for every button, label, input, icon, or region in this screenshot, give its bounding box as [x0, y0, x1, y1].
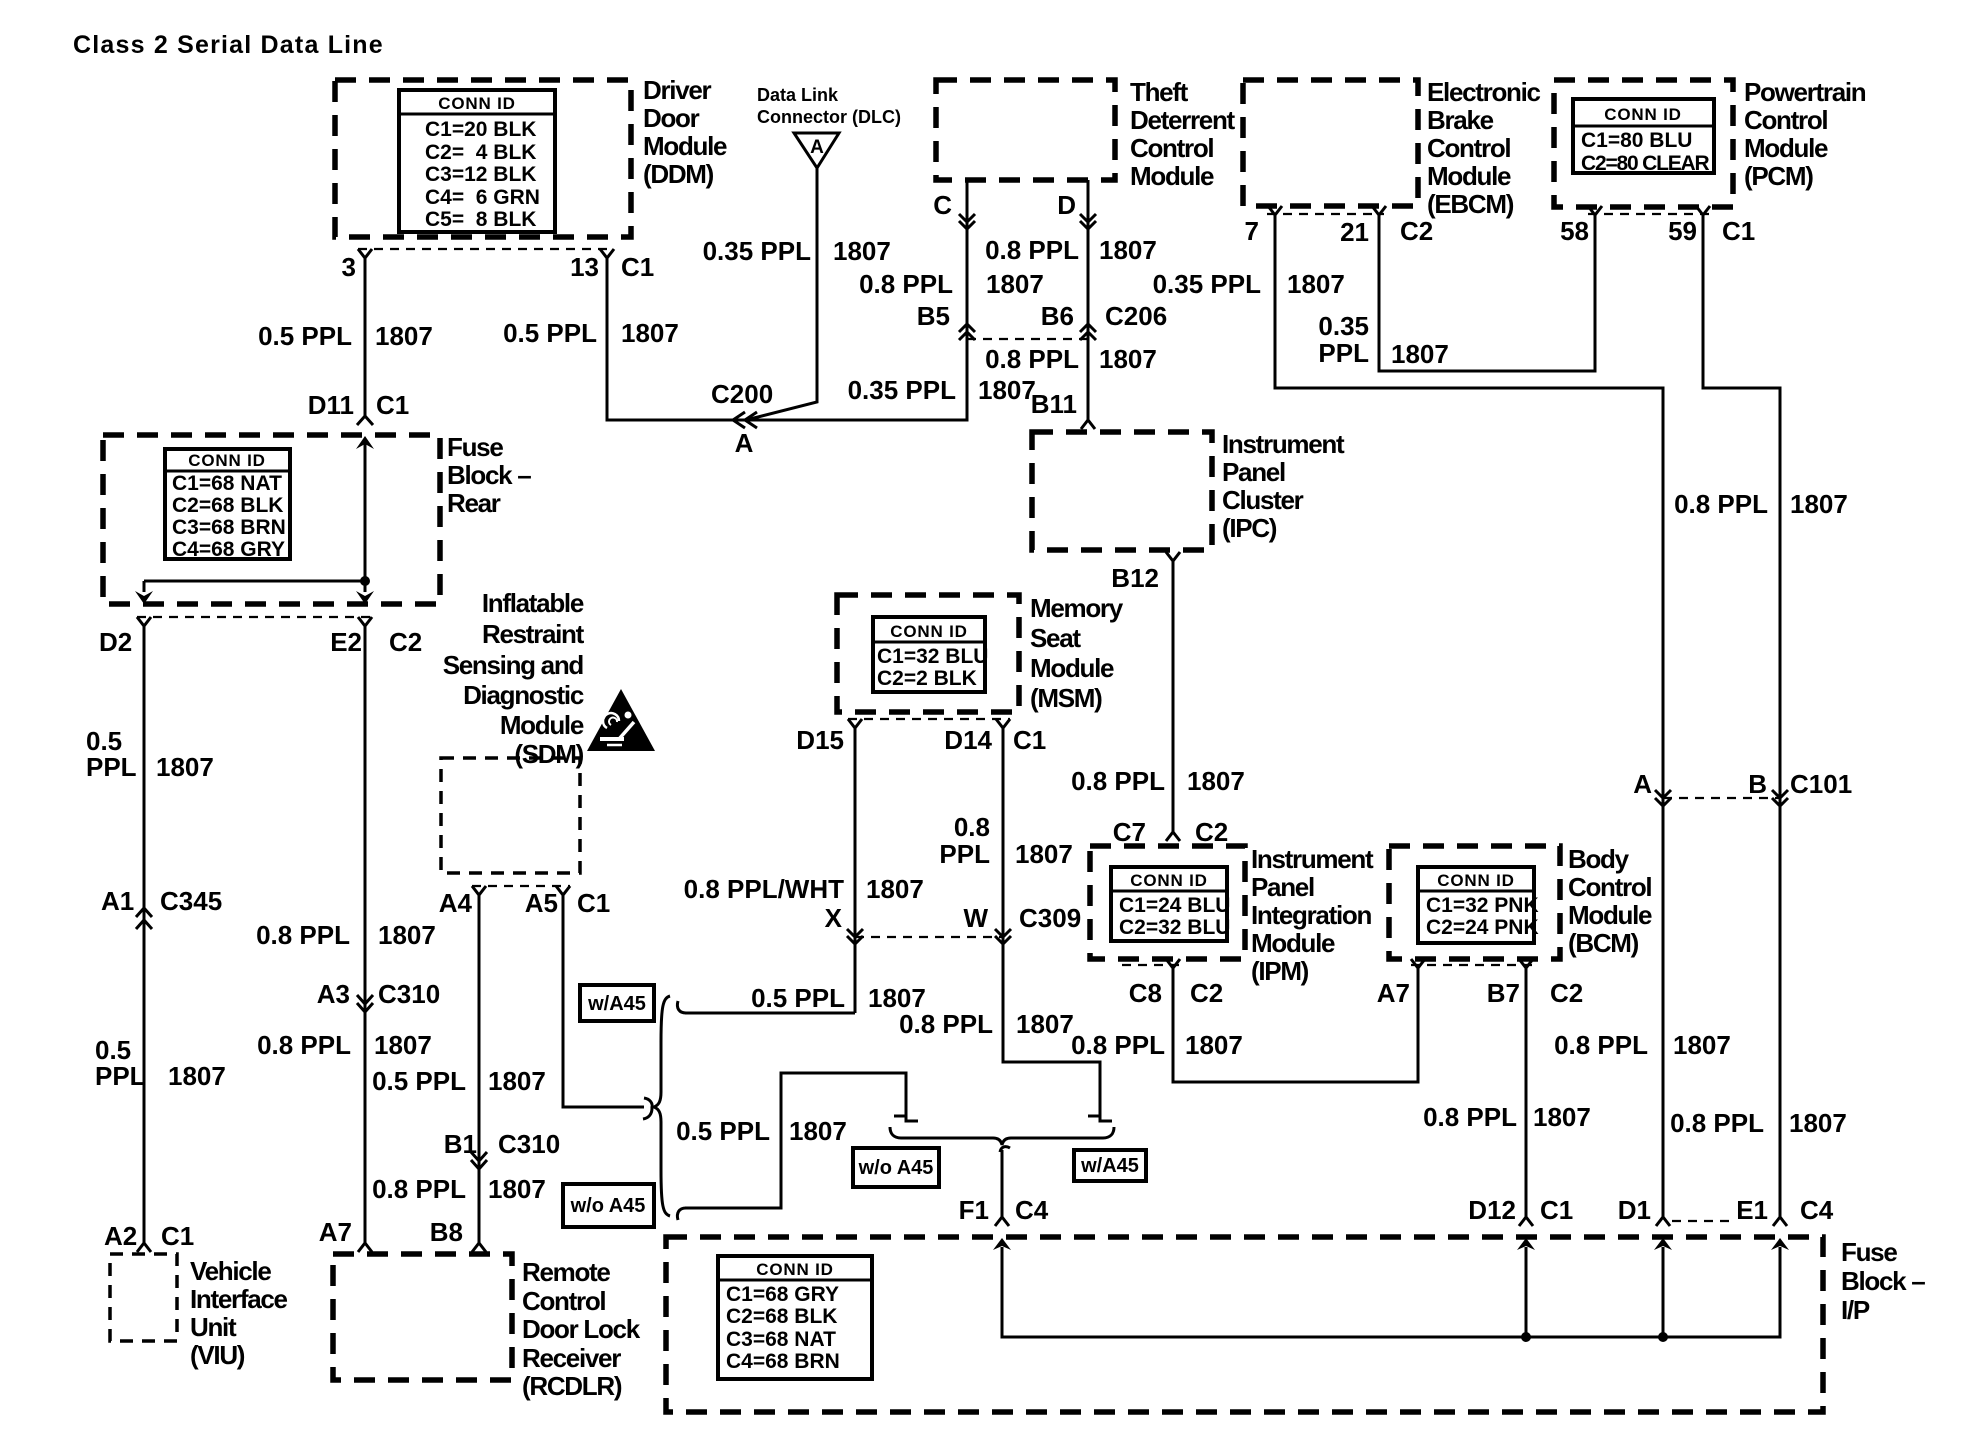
wire PCM pin59 to C101-B and fuse block E1: [1703, 213, 1780, 1217]
svg-text:1807: 1807: [621, 318, 679, 348]
svg-text:13: 13: [570, 252, 599, 282]
w/o A45 branch curl: [677, 1208, 686, 1220]
svg-text:C5= 8 BLK: C5= 8 BLK: [425, 208, 536, 231]
pin C8 C2 (IPM): [1129, 959, 1224, 1008]
terminal D12 C1 into fuse block IP: [1468, 1195, 1573, 1226]
wire B7 to fuse block D12: [1525, 966, 1528, 1217]
svg-text:C1: C1: [1722, 216, 1755, 246]
svg-text:0.8 PPL: 0.8 PPL: [1674, 489, 1768, 519]
svg-text:Control: Control: [1744, 105, 1827, 135]
pin E2 C2: [330, 617, 422, 657]
svg-text:1807: 1807: [978, 375, 1036, 405]
svg-text:C1: C1: [1540, 1195, 1573, 1225]
label Fuse Block - Rear: [447, 432, 531, 518]
connector C206 dashed line: [967, 338, 1088, 340]
w/A45 option box (left): [580, 985, 654, 1021]
arrow into fuse block rear at D11: [356, 436, 374, 449]
wire DDM pin3 to fuse block rear D11: [364, 256, 367, 417]
pin D15 (MSM): [796, 719, 862, 755]
connector C309 dashed line: [855, 936, 1003, 938]
svg-text:PPL: PPL: [86, 752, 137, 782]
svg-text:1807: 1807: [1391, 339, 1449, 369]
svg-text:Instrument: Instrument: [1222, 429, 1345, 459]
label 0.35 PPL 1807 (pin7 wire): [1153, 269, 1345, 299]
svg-text:0.35 PPL: 0.35 PPL: [703, 236, 812, 266]
connector B6 C206 arrow: [1041, 301, 1167, 340]
wire B12 to IPM C7: [1172, 559, 1175, 832]
label Inflatable Restraint Sensing and Diagnostic Module (SDM): [443, 588, 585, 769]
pin A4 (SDM): [439, 886, 486, 918]
svg-text:1807: 1807: [488, 1066, 546, 1096]
svg-text:0.8 PPL: 0.8 PPL: [1071, 1030, 1165, 1060]
svg-text:w/o A45: w/o A45: [858, 1157, 934, 1179]
svg-text:B7: B7: [1487, 978, 1520, 1008]
table CONN ID (PCM): [1573, 99, 1714, 175]
wire TDCM pin D down to B11: [1087, 180, 1090, 420]
svg-text:Powertrain: Powertrain: [1744, 77, 1866, 107]
svg-text:1807: 1807: [833, 236, 891, 266]
svg-text:0.8 PPL: 0.8 PPL: [1071, 766, 1165, 796]
svg-text:0.8 PPL: 0.8 PPL: [899, 1009, 993, 1039]
w/A45 option box (right): [1074, 1150, 1146, 1181]
svg-text:Connector (DLC): Connector (DLC): [757, 107, 901, 127]
svg-text:0.8 PPL: 0.8 PPL: [859, 269, 953, 299]
svg-text:Module: Module: [1744, 133, 1828, 163]
pin 13 C1 (DDM): [570, 249, 654, 282]
terminal F1 C4 into fuse block IP: [959, 1195, 1049, 1226]
svg-text:59: 59: [1668, 216, 1697, 246]
label 0.8 PPL/WHT 1807 (D15 wire): [684, 874, 924, 904]
junction dot at D1 bus: [1658, 1332, 1668, 1342]
svg-text:0.35: 0.35: [1318, 311, 1369, 341]
svg-text:B1: B1: [444, 1129, 477, 1159]
wire DDM pin13 down and across to C200 junction: [607, 180, 967, 420]
svg-text:C3=12 BLK: C3=12 BLK: [425, 163, 536, 186]
terminal C7 C2 into IPM: [1113, 817, 1229, 847]
MSM pin dashed line: [848, 718, 1010, 720]
svg-text:A: A: [1633, 769, 1652, 799]
svg-text:C309: C309: [1019, 903, 1081, 933]
pin A7 (BCM): [1377, 959, 1425, 1008]
svg-text:C7: C7: [1113, 817, 1146, 847]
label 0.5 PPL 1807 (wire 13-C1): [503, 318, 679, 348]
label 0.8 PPL 1807 (D14 wire): [939, 812, 1072, 869]
svg-text:C1: C1: [376, 390, 409, 420]
svg-text:D11: D11: [308, 390, 354, 420]
svg-text:1807: 1807: [1287, 269, 1345, 299]
svg-text:W: W: [963, 903, 988, 933]
svg-text:C3=68 NAT: C3=68 NAT: [726, 1328, 836, 1351]
module EBCM box: [1243, 80, 1418, 206]
svg-text:B5: B5: [917, 301, 950, 331]
pin 21 C2 (EBCM): [1340, 206, 1433, 247]
svg-text:C4= 6 GRN: C4= 6 GRN: [425, 186, 540, 209]
label 0.8 PPL 1807 (E1 wire): [1670, 1108, 1847, 1138]
svg-text:C8: C8: [1129, 978, 1162, 1008]
pin 7 (EBCM): [1245, 206, 1282, 246]
module MSM box: [837, 595, 1019, 712]
svg-text:Block –: Block –: [1841, 1266, 1925, 1296]
table CONN ID (BCM): [1418, 867, 1539, 943]
label 0.5 PPL 1807 (A4 wire upper): [372, 1066, 546, 1096]
terminal E1 C4 into fuse block IP: [1736, 1195, 1834, 1226]
svg-text:D15: D15: [796, 725, 844, 755]
BCM pin dashed line: [1411, 964, 1533, 966]
svg-text:0.5 PPL: 0.5 PPL: [676, 1116, 770, 1146]
svg-text:CONN ID: CONN ID: [438, 94, 515, 113]
terminal A2 C1 into VIU: [104, 1221, 194, 1252]
label 0.8 PPL 1807 (A4 wire lower): [372, 1174, 546, 1204]
svg-text:C1=32 PNK: C1=32 PNK: [1426, 894, 1539, 917]
svg-text:(IPC): (IPC): [1222, 513, 1277, 543]
svg-text:PPL: PPL: [939, 839, 990, 869]
svg-text:0.5 PPL: 0.5 PPL: [751, 983, 845, 1013]
module TDCM box: [936, 80, 1115, 180]
svg-text:C2=68 BLK: C2=68 BLK: [726, 1305, 837, 1328]
svg-text:(EBCM): (EBCM): [1427, 189, 1514, 219]
label 0.35 PPL 1807 (pin21 wire): [1318, 311, 1448, 369]
label 0.35 PPL 1807 (DLC wire): [703, 236, 891, 266]
w/A45 branch curl: [677, 1001, 686, 1013]
svg-text:Rear: Rear: [447, 488, 501, 518]
module VIU box: [110, 1254, 177, 1341]
svg-text:I/P: I/P: [1841, 1295, 1870, 1325]
pin D14 C1 (MSM): [944, 719, 1046, 755]
label 0.5 PPL 1807 (A5 branch): [676, 1116, 847, 1146]
IPM pin dashed line: [1122, 964, 1180, 966]
svg-text:A7: A7: [1377, 978, 1410, 1008]
arrow out of fuse block rear at D2: [135, 591, 153, 604]
wire w/A45 branch to X wire: [685, 1012, 855, 1015]
svg-text:1807: 1807: [866, 874, 924, 904]
svg-text:Sensing and: Sensing and: [443, 650, 584, 680]
svg-text:1807: 1807: [1187, 766, 1245, 796]
label 0.8 PPL 1807 (E2 wire lower): [257, 1030, 432, 1060]
terminal D1 into fuse block IP: [1618, 1195, 1670, 1226]
svg-text:0.35 PPL: 0.35 PPL: [848, 375, 957, 405]
label 0.8 PPL 1807 (B wire above C101): [1674, 489, 1848, 519]
curl end of A5 wire: [643, 1098, 652, 1119]
svg-text:0.5 PPL: 0.5 PPL: [503, 318, 597, 348]
label Driver Door Module (DDM): [643, 75, 727, 189]
svg-text:Module: Module: [500, 710, 584, 740]
svg-text:0.5 PPL: 0.5 PPL: [258, 321, 352, 351]
svg-text:Module: Module: [1427, 161, 1511, 191]
arrow into fuse block IP at E1: [1771, 1238, 1789, 1250]
svg-text:C1=80 BLU: C1=80 BLU: [1581, 129, 1692, 152]
svg-text:(SDM): (SDM): [514, 739, 583, 769]
svg-text:0.8 PPL/WHT: 0.8 PPL/WHT: [684, 874, 844, 904]
svg-text:C1=20 BLK: C1=20 BLK: [425, 118, 536, 141]
DLC triangle A: [794, 133, 839, 168]
svg-text:C200: C200: [711, 379, 773, 409]
table CONN ID (Fuse Block IP): [718, 1256, 872, 1379]
wire E2 to RCDLR A7: [364, 624, 367, 1244]
svg-text:D1: D1: [1618, 1195, 1651, 1225]
module IPC box: [1032, 432, 1212, 550]
junction dot at D12 bus: [1521, 1332, 1531, 1342]
svg-text:CONN ID: CONN ID: [1130, 871, 1207, 890]
wire EBCM pin21 to PCM pin58: [1379, 213, 1595, 371]
svg-text:A: A: [810, 137, 824, 158]
svg-text:Cluster: Cluster: [1222, 485, 1304, 515]
svg-text:Instrument: Instrument: [1251, 844, 1374, 874]
svg-text:A7: A7: [319, 1217, 352, 1247]
label 0.5 PPL 1807 (wire 3-D11): [258, 321, 433, 351]
EBCM pin dashed line: [1267, 213, 1384, 215]
module RCDLR box: [333, 1254, 512, 1380]
connector B5 arrow: [917, 301, 975, 340]
connector C200 arrow A: [711, 379, 773, 458]
svg-text:C1=68 GRY: C1=68 GRY: [726, 1283, 839, 1306]
svg-text:0.8 PPL: 0.8 PPL: [1554, 1030, 1648, 1060]
svg-text:C1=32 BLU: C1=32 BLU: [877, 645, 988, 668]
svg-text:C4=68 GRY: C4=68 GRY: [172, 538, 285, 561]
module BCM box: [1389, 846, 1560, 959]
label Theft Deterrent Control Module: [1130, 77, 1236, 191]
terminal D11 C1: [308, 390, 410, 425]
pin 59 C1 (PCM): [1668, 206, 1755, 246]
wire D15 to w/A45 branch: [854, 726, 857, 1013]
svg-text:w/A45: w/A45: [587, 993, 646, 1015]
label 0.8 PPL 1807 (B6-B11 wire): [985, 344, 1157, 374]
terminal B8 into RCDLR: [430, 1217, 486, 1252]
label 0.8 PPL 1807 (D1 wire): [1554, 1030, 1731, 1060]
label 0.8 PPL 1807 (B12 wire): [1071, 766, 1245, 796]
wire C8 to BCM A7: [1173, 966, 1418, 1082]
wire w/o A45 branch to splice bus: [685, 1073, 918, 1208]
svg-text:Body: Body: [1568, 844, 1630, 874]
svg-text:(IPM): (IPM): [1251, 956, 1309, 986]
label Memory Seat Module (MSM): [1030, 593, 1124, 713]
svg-text:0.8 PPL: 0.8 PPL: [985, 344, 1079, 374]
table CONN ID (DDM): [399, 90, 555, 232]
svg-text:w/A45: w/A45: [1080, 1155, 1139, 1177]
svg-text:Control: Control: [522, 1286, 605, 1316]
svg-text:PPL: PPL: [1318, 338, 1369, 368]
svg-text:Deterrent: Deterrent: [1130, 105, 1236, 135]
svg-text:1807: 1807: [1790, 489, 1848, 519]
terminal B11 into IPC: [1031, 389, 1095, 429]
arrow double chevron down on C wire: [959, 214, 975, 229]
svg-text:(BCM): (BCM): [1568, 928, 1639, 958]
table CONN ID (MSM): [873, 617, 988, 692]
wire A5 to splice branch point: [563, 893, 644, 1107]
fuse block rear bottom pin dashed line: [137, 616, 372, 618]
svg-text:1807: 1807: [1099, 344, 1157, 374]
svg-text:C2=32 BLU: C2=32 BLU: [1119, 916, 1230, 939]
svg-text:C2=24 PNK: C2=24 PNK: [1426, 916, 1539, 939]
pin B12 (IPC): [1111, 552, 1180, 593]
svg-text:C2=68 BLK: C2=68 BLK: [172, 494, 283, 517]
module Fuse Block Rear box: [103, 435, 440, 604]
arrow double chevron down on D wire: [1080, 214, 1096, 229]
junction dot inside fuse block rear: [360, 576, 370, 586]
label Fuse Block - I/P: [1841, 1237, 1925, 1325]
terminal A7 into RCDLR: [319, 1217, 372, 1252]
pin A5 C1 (SDM): [525, 886, 611, 918]
arrow into fuse block IP at D1: [1654, 1238, 1672, 1250]
module IPM box: [1090, 846, 1245, 959]
svg-text:Unit: Unit: [190, 1312, 237, 1342]
svg-text:C2=80 CLEAR: C2=80 CLEAR: [1581, 152, 1709, 175]
svg-text:Module: Module: [1030, 653, 1114, 683]
svg-text:Receiver: Receiver: [522, 1343, 621, 1373]
svg-text:1807: 1807: [789, 1116, 847, 1146]
svg-text:Module: Module: [1130, 161, 1214, 191]
svg-text:C1=68 NAT: C1=68 NAT: [172, 472, 282, 495]
svg-text:B8: B8: [430, 1217, 463, 1247]
svg-text:C310: C310: [378, 979, 440, 1009]
svg-text:1807: 1807: [378, 920, 436, 950]
pin B7 C2 (BCM): [1487, 959, 1584, 1008]
table CONN ID (IPM): [1111, 867, 1230, 941]
w/o A45 option box (center): [853, 1148, 939, 1187]
svg-text:0.5 PPL: 0.5 PPL: [372, 1066, 466, 1096]
svg-text:1807: 1807: [1016, 1009, 1074, 1039]
svg-text:58: 58: [1560, 216, 1589, 246]
svg-text:CONN ID: CONN ID: [890, 622, 967, 641]
svg-text:A5: A5: [525, 888, 558, 918]
DDM pin dashed line: [358, 248, 614, 250]
svg-text:CONN ID: CONN ID: [1604, 105, 1681, 124]
svg-text:w/o A45: w/o A45: [570, 1195, 646, 1217]
svg-text:Vehicle: Vehicle: [190, 1256, 271, 1286]
svg-text:1807: 1807: [374, 1030, 432, 1060]
module Fuse Block IP box: [666, 1237, 1823, 1412]
svg-text:Module: Module: [643, 131, 727, 161]
svg-text:B6: B6: [1041, 301, 1074, 331]
svg-text:Door Lock: Door Lock: [522, 1314, 641, 1344]
svg-text:E1: E1: [1736, 1195, 1768, 1225]
wire bus inside fuse block IP: [1002, 1247, 1780, 1337]
svg-text:C2: C2: [1550, 978, 1583, 1008]
svg-text:Door: Door: [643, 103, 700, 133]
label 0.5 PPL 1807 (D2 wire upper): [86, 726, 214, 782]
svg-text:C2: C2: [1190, 978, 1223, 1008]
connector W arrow (C309): [963, 903, 1081, 944]
svg-text:Inflatable: Inflatable: [482, 588, 584, 618]
svg-text:A: A: [735, 428, 754, 458]
svg-text:Control: Control: [1130, 133, 1213, 163]
svg-text:1807: 1807: [1673, 1030, 1731, 1060]
svg-text:Theft: Theft: [1130, 77, 1189, 107]
svg-text:1807: 1807: [986, 269, 1044, 299]
svg-text:1807: 1807: [1533, 1102, 1591, 1132]
svg-text:Restraint: Restraint: [482, 619, 585, 649]
svg-text:D: D: [1057, 190, 1076, 220]
wire EBCM pin7 to C101-A and fuse block D1: [1275, 213, 1663, 1217]
arrow into fuse block IP at F1: [993, 1238, 1011, 1250]
svg-text:C2: C2: [1400, 216, 1433, 246]
svg-text:1807: 1807: [156, 752, 214, 782]
label 0.35 PPL 1807 (segment right of C200): [848, 375, 1036, 405]
svg-text:7: 7: [1245, 216, 1259, 246]
svg-text:21: 21: [1340, 217, 1369, 247]
label 0.8 PPL 1807 (W to bus): [899, 1009, 1074, 1039]
svg-text:Integration: Integration: [1251, 900, 1371, 930]
Data Link Connector (DLC) label: [757, 85, 901, 127]
wire DLC to C200: [750, 167, 817, 419]
label 0.5 PPL 1807 (X to branch): [751, 983, 926, 1013]
connector B1 C310: [444, 1129, 560, 1169]
svg-text:1807: 1807: [168, 1061, 226, 1091]
svg-text:(PCM): (PCM): [1744, 161, 1813, 191]
svg-text:CONN ID: CONN ID: [1437, 871, 1514, 890]
svg-text:Fuse: Fuse: [447, 432, 503, 462]
svg-text:0.8 PPL: 0.8 PPL: [256, 920, 350, 950]
splice bus center tap curl: [1000, 1147, 1010, 1152]
svg-text:C1=24 BLU: C1=24 BLU: [1119, 894, 1230, 917]
module SDM box: [441, 758, 580, 873]
pin C label: [933, 190, 952, 220]
svg-text:C2: C2: [389, 627, 422, 657]
wire A4 to RCDLR B8: [478, 893, 481, 1244]
label Body Control Module (BCM): [1568, 844, 1652, 958]
svg-text:3: 3: [342, 252, 356, 282]
svg-text:0.8 PPL: 0.8 PPL: [257, 1030, 351, 1060]
svg-text:Panel: Panel: [1251, 872, 1314, 902]
svg-text:C4=68 BRN: C4=68 BRN: [726, 1350, 840, 1373]
svg-text:E2: E2: [330, 627, 362, 657]
dashed line between D1 and E1: [1672, 1220, 1736, 1222]
svg-text:0.35 PPL: 0.35 PPL: [1153, 269, 1262, 299]
wire D14 below W to splice bus: [1003, 726, 1112, 1121]
svg-text:Panel: Panel: [1222, 457, 1285, 487]
svg-text:C1: C1: [621, 252, 654, 282]
svg-text:B12: B12: [1111, 563, 1159, 593]
svg-text:A1: A1: [101, 886, 134, 916]
module PCM box: [1554, 80, 1733, 207]
pin D label: [1057, 190, 1076, 220]
svg-text:0.8 PPL: 0.8 PPL: [1670, 1108, 1764, 1138]
svg-text:0.8 PPL: 0.8 PPL: [985, 235, 1079, 265]
label Remote Control Door Lock Receiver (RCDLR): [522, 1257, 641, 1401]
splice selection brace: [654, 996, 670, 1216]
pin D2: [99, 617, 151, 657]
svg-text:CONN ID: CONN ID: [756, 1260, 833, 1279]
svg-text:Remote: Remote: [522, 1257, 610, 1287]
module DDM box: [335, 80, 631, 237]
svg-text:A4: A4: [439, 888, 473, 918]
pin 58 (PCM): [1560, 206, 1602, 246]
svg-text:1807: 1807: [1789, 1108, 1847, 1138]
wire splice bus to F1: [1001, 1150, 1004, 1217]
SDM warning triangle icon: [587, 689, 655, 751]
svg-text:C2= 4 BLK: C2= 4 BLK: [425, 141, 536, 164]
pin 3 (DDM): [342, 249, 372, 282]
label 0.8 PPL 1807 (D wire): [985, 235, 1157, 265]
svg-text:1807: 1807: [1099, 235, 1157, 265]
svg-text:0.8: 0.8: [954, 812, 990, 842]
w/o A45 option box (left): [563, 1184, 654, 1227]
label 0.8 PPL 1807 (B7 wire): [1423, 1102, 1591, 1132]
label Powertrain Control Module (PCM): [1744, 77, 1866, 191]
svg-text:(MSM): (MSM): [1030, 683, 1102, 713]
svg-text:Block –: Block –: [447, 460, 531, 490]
svg-text:1807: 1807: [1015, 839, 1073, 869]
svg-text:B11: B11: [1031, 389, 1077, 419]
svg-text:D12: D12: [1468, 1195, 1516, 1225]
wire D2 to VIU A2: [143, 624, 146, 1244]
svg-text:C4: C4: [1800, 1195, 1834, 1225]
splice bus brace: [890, 1127, 1114, 1145]
svg-text:C1: C1: [1013, 725, 1046, 755]
svg-text:C: C: [933, 190, 952, 220]
PCM pin dashed line: [1588, 213, 1710, 215]
svg-text:0.8 PPL: 0.8 PPL: [1423, 1102, 1517, 1132]
svg-text:Driver: Driver: [643, 75, 712, 105]
